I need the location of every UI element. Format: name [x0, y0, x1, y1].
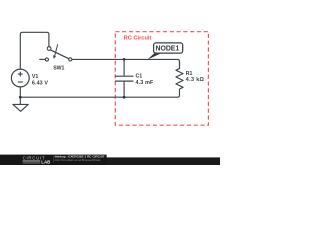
- junction dot at V1 bottom: [19, 96, 22, 99]
- svg-text:6.43 V: 6.43 V: [32, 81, 48, 87]
- footer separator: [53, 156, 55, 163]
- switch label SW1: [53, 65, 64, 71]
- wire resistor bottom to V1 bottom (bottom rail): [20, 89, 179, 97]
- svg-text:4.3 kΩ: 4.3 kΩ: [186, 77, 205, 83]
- voltage source V1: [11, 69, 29, 87]
- svg-text:C1: C1: [136, 74, 143, 80]
- junction dot bottom of C1: [123, 96, 126, 99]
- footer CircuitLab logo: [23, 155, 51, 164]
- svg-text:http://circuitlab.com/c6bqnaa4: http://circuitlab.com/c6bqnaa4f93da: [55, 158, 101, 162]
- svg-text:4.3 mF: 4.3 mF: [136, 80, 155, 86]
- NODE1 callout bubble: [154, 43, 183, 53]
- NODE1 label: [156, 46, 180, 53]
- RC Circuit label: [124, 35, 152, 41]
- svg-text:NODE1: NODE1: [156, 46, 180, 53]
- wire V1 bottom to ground junction: [19, 87, 21, 97]
- svg-text:V1: V1: [32, 74, 38, 80]
- wire V1 top to switch pivot (left loop): [20, 32, 49, 69]
- junction dot node1 (top of C1): [123, 58, 126, 61]
- capacitor C1: [115, 59, 134, 97]
- ground symbol: [13, 97, 28, 111]
- V1 name label: [32, 74, 38, 80]
- RC Circuit boundary box: [115, 32, 208, 126]
- NODE1 callout tail: [147, 51, 161, 60]
- resistor R1 name label: [186, 71, 193, 77]
- switch actuator arrow: [53, 44, 58, 59]
- footer title text: [55, 155, 105, 159]
- capacitor C1 name label: [136, 74, 143, 80]
- svg-text:RC Circuit: RC Circuit: [124, 35, 152, 41]
- footer watermark bar: [0, 155, 220, 165]
- resistor R1 zigzag: [176, 62, 183, 90]
- footer url text: [55, 158, 101, 162]
- switch blade: [51, 50, 69, 59]
- switch left throw terminal circle: [45, 58, 48, 61]
- svg-text:LAB: LAB: [41, 159, 50, 164]
- svg-text:SW1: SW1: [53, 65, 64, 71]
- V1 value label 6.43 V: [32, 81, 48, 87]
- wire switch to resistor top: [72, 59, 180, 66]
- switch left throw stub wire: [39, 58, 45, 60]
- switch pivot terminal circle: [47, 47, 51, 51]
- switch right terminal circle: [69, 58, 72, 61]
- resistor R1 value label 4.3 kOhm: [186, 77, 205, 83]
- capacitor C1 value label 4.3 mF: [136, 80, 155, 86]
